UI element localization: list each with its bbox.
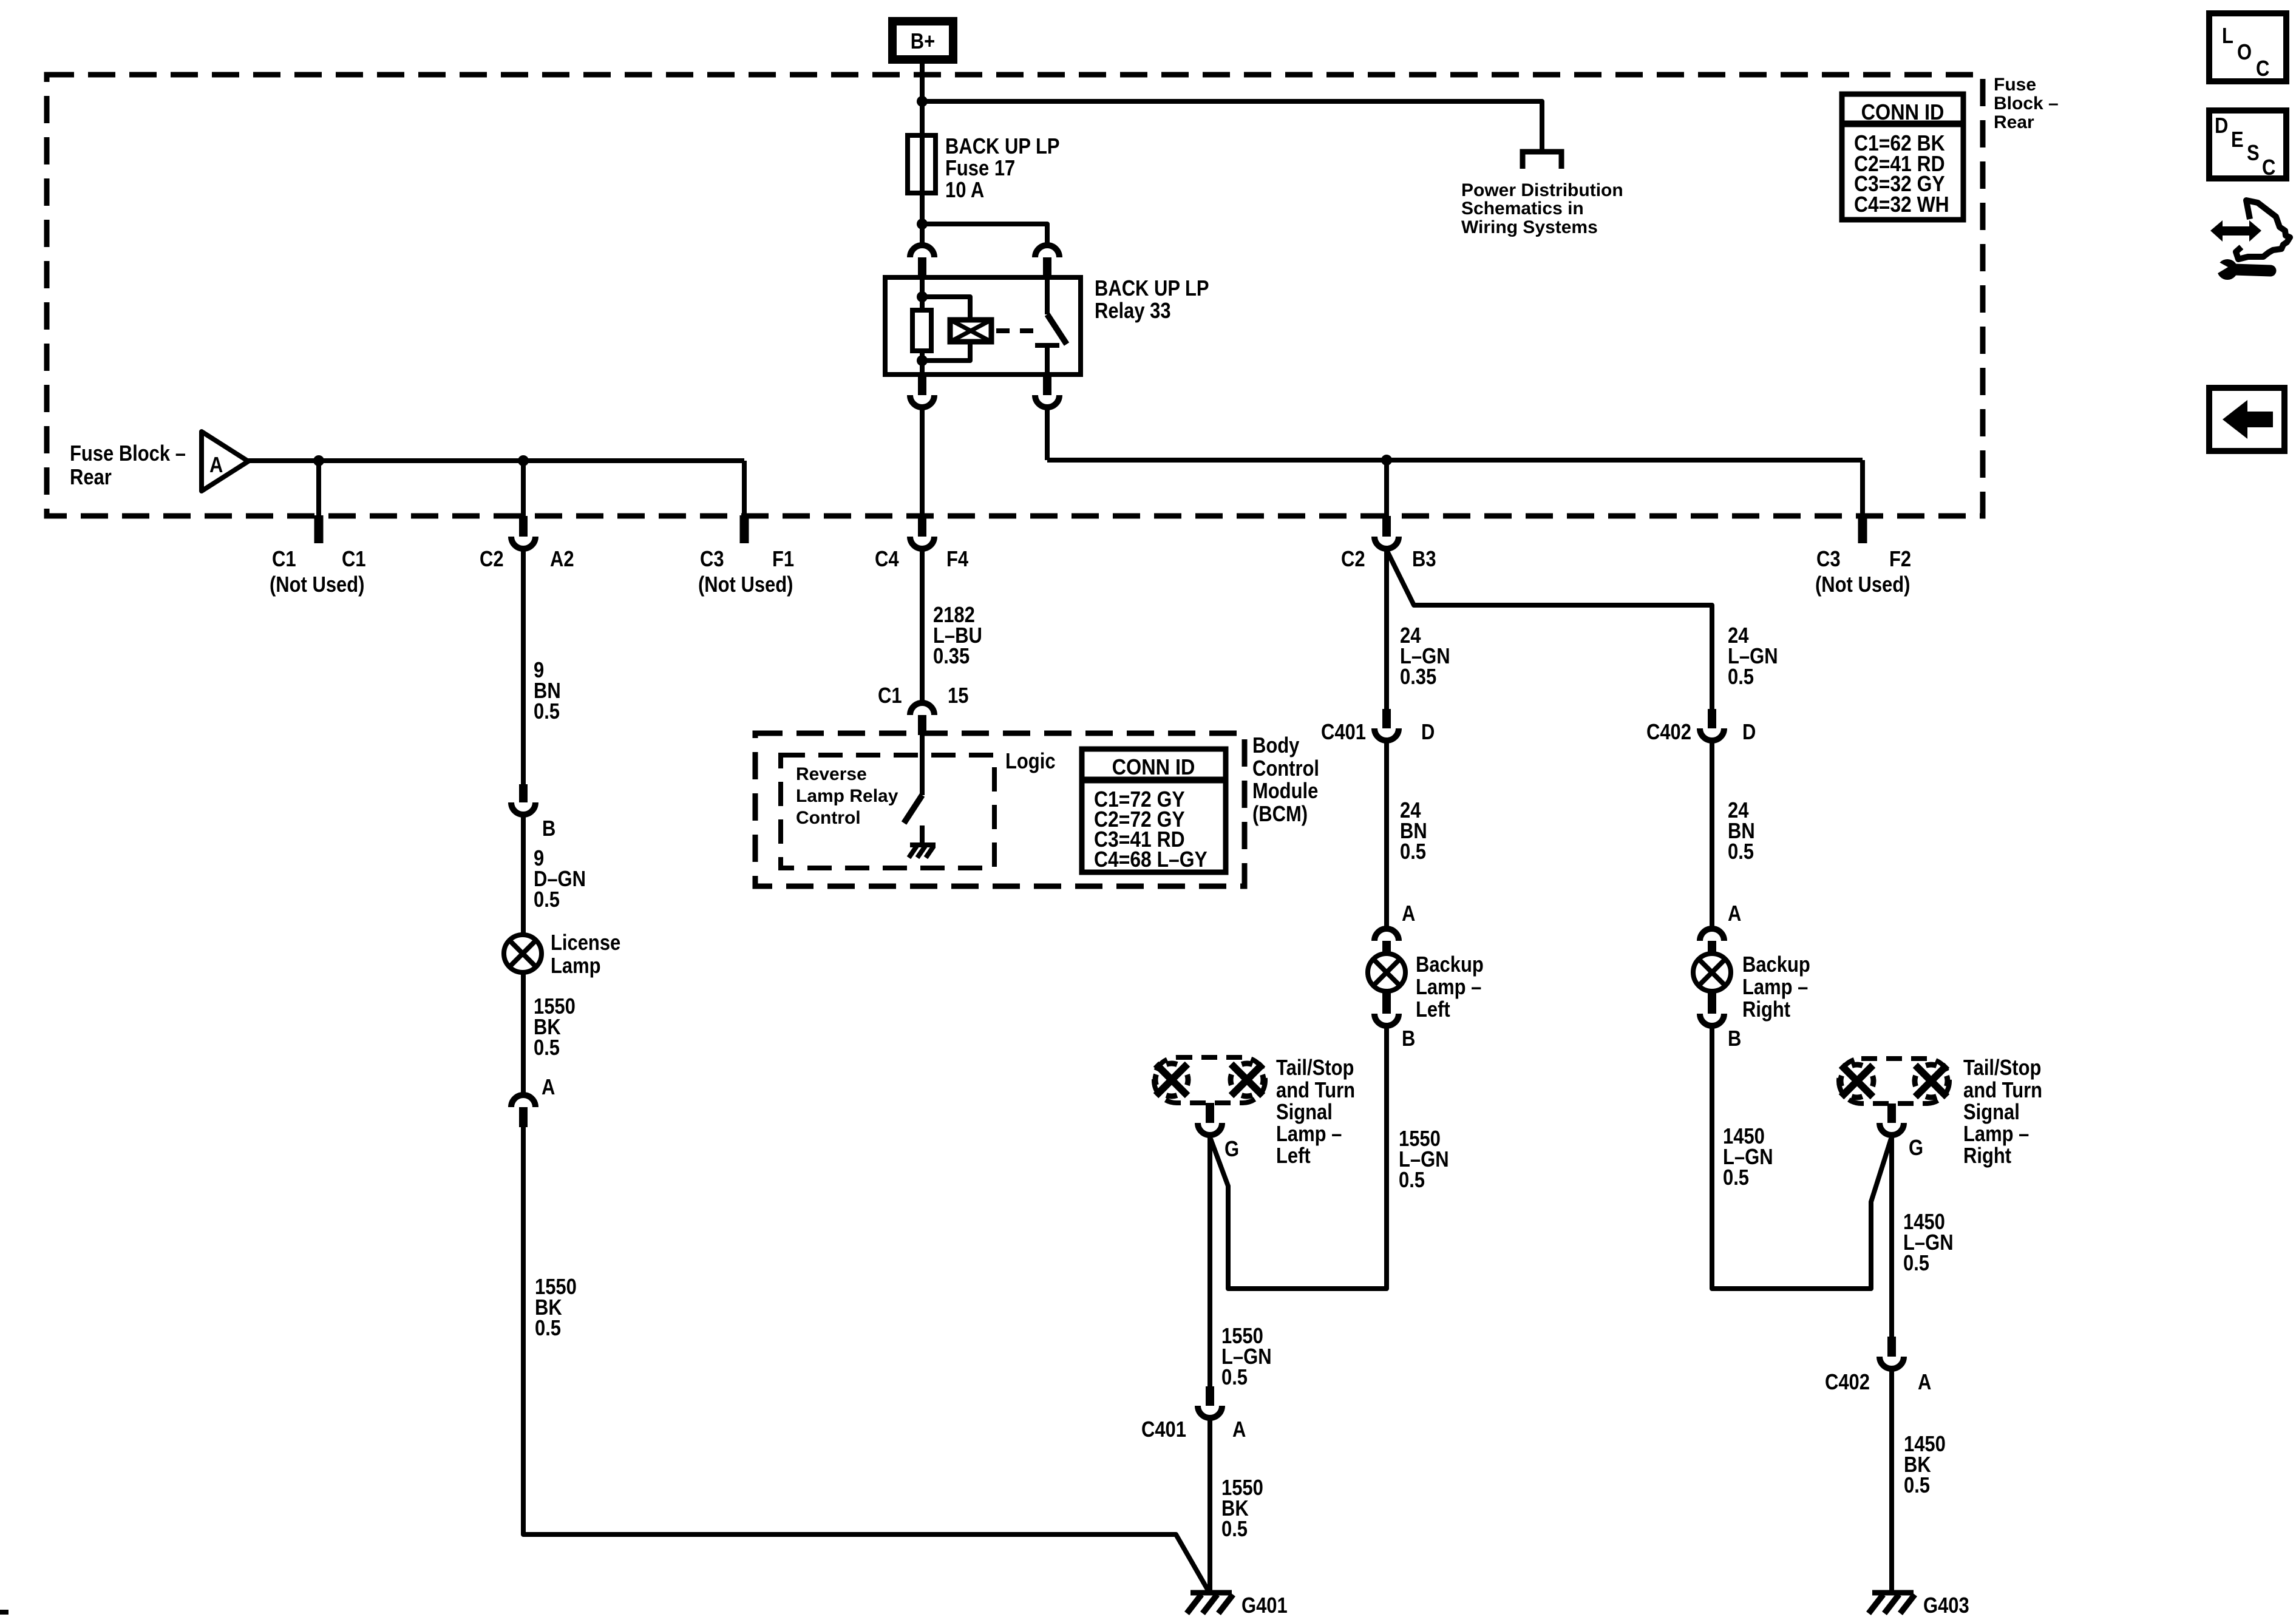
pin C1 C1 (not used) (314, 515, 324, 543)
wire C2 A2 to license lamp (521, 551, 526, 784)
wire drop to C2 B3 pin (1384, 460, 1389, 516)
svg-text:C3: C3 (700, 547, 724, 572)
svg-text:C2: C2 (480, 547, 504, 572)
svg-text:A: A (1918, 1371, 1931, 1395)
svg-text:and Turn: and Turn (1276, 1079, 1355, 1103)
svg-text:D: D (1742, 720, 1756, 745)
svg-text:O: O (2237, 41, 2252, 65)
wire license lamp A to ground G401 (523, 1127, 1209, 1592)
svg-text:Wiring Systems: Wiring Systems (1461, 217, 1598, 237)
wire 9 D-GN 0.5 label (534, 847, 586, 912)
BCM driver switch (904, 735, 922, 844)
backup lamp left label (1416, 953, 1484, 1022)
wire backup lamp right B to tail lamp right G (1712, 1028, 1891, 1289)
svg-text:(Not Used): (Not Used) (1815, 573, 1910, 597)
wire 1450 BK 0.5 label (1904, 1432, 1946, 1498)
svg-text:Backup: Backup (1416, 953, 1484, 977)
wire to relay coil (922, 297, 970, 320)
power distribution note (1461, 180, 1623, 237)
svg-text:Rear: Rear (70, 466, 112, 490)
grommet A triangle (202, 432, 248, 491)
backup lamp left pin A (1374, 902, 1415, 955)
svg-text:Fuse 17: Fuse 17 (945, 157, 1015, 181)
wire C402 A to ground (1889, 1371, 1894, 1592)
wire license lamp to pin A (521, 972, 526, 1093)
svg-text:Tail/Stop: Tail/Stop (1276, 1056, 1354, 1080)
svg-text:Control: Control (1252, 757, 1319, 781)
svg-text:Module: Module (1252, 779, 1318, 804)
pin labels C4 F4 (875, 547, 968, 572)
pin labels C402 D (1646, 720, 1756, 745)
scan speck (0, 1610, 8, 1615)
svg-text:G: G (1224, 1137, 1239, 1162)
svg-text:Tail/Stop: Tail/Stop (1963, 1056, 2041, 1080)
wire 24 BN 0.5 label (right) (1728, 799, 1755, 864)
wire coil to lower junction (922, 342, 970, 361)
svg-text:D: D (1421, 720, 1435, 745)
BCM name (1252, 734, 1319, 827)
fuse block CONN ID table (1842, 94, 1963, 220)
wire drop to C3 F2 pin (1860, 460, 1865, 515)
wire relay coil to C4 pin (920, 410, 925, 516)
svg-text:Right: Right (1963, 1144, 2011, 1168)
junction (518, 455, 529, 466)
svg-text:Logic: Logic (1005, 750, 1056, 774)
pin labels C2 B3 (1341, 547, 1436, 572)
svg-text:G401: G401 (1241, 1594, 1288, 1617)
svg-text:B: B (542, 817, 555, 841)
junction (917, 96, 928, 107)
svg-text:A: A (1402, 902, 1415, 926)
relay contact output pin connector 87 (1035, 375, 1059, 407)
svg-text:C3: C3 (1816, 547, 1841, 572)
license lamp label (551, 931, 620, 978)
wire backup lamp left B to tail lamp left G (1211, 1028, 1387, 1289)
svg-text:0.5: 0.5 (1904, 1474, 1930, 1498)
svg-text:A: A (542, 1076, 555, 1100)
wire 24 L-GN 0.35 label (1400, 624, 1450, 690)
svg-text:C: C (2262, 156, 2275, 180)
svg-text:Left: Left (1276, 1144, 1311, 1168)
ground G403 (1869, 1593, 1969, 1617)
svg-text:Lamp: Lamp (551, 954, 601, 978)
svg-text:Signal: Signal (1963, 1100, 2020, 1125)
DESC sidebar icon (2209, 110, 2286, 180)
svg-text:Block –: Block – (1994, 93, 2059, 114)
wire to C401 D (1384, 550, 1389, 709)
connector C402 pin D (1700, 709, 1724, 741)
reverse lamp relay control label (796, 764, 898, 828)
wire C402 D to backup lamp right (1710, 743, 1714, 926)
svg-text:0.5: 0.5 (1903, 1252, 1929, 1276)
wire 24 L-GN 0.5 label (1728, 624, 1778, 690)
svg-text:C4: C4 (875, 547, 899, 572)
svg-text:A: A (1728, 902, 1741, 926)
wire branch to relay contact pin (922, 224, 1047, 243)
svg-text:Lamp Relay: Lamp Relay (796, 786, 898, 806)
junction (917, 355, 928, 366)
connector C2 A2 (511, 516, 535, 549)
wire branch to C402 D (1387, 550, 1712, 709)
connector C402 pin A (1880, 1337, 1904, 1369)
battery feed B+ (892, 21, 953, 59)
backup lamp left (1368, 954, 1405, 991)
wire relay contact to feed bus (1045, 410, 1050, 460)
pin C3 F2 (not used) (1858, 515, 1867, 543)
svg-text:and Turn: and Turn (1963, 1079, 2042, 1103)
svg-text:0.35: 0.35 (933, 645, 970, 669)
svg-text:C401: C401 (1321, 720, 1366, 745)
pin labels C401 D (1321, 720, 1435, 745)
relay 33 box (885, 277, 1081, 375)
svg-text:Body: Body (1252, 734, 1300, 758)
svg-text:C: C (2256, 57, 2269, 81)
svg-text:0.5: 0.5 (1399, 1168, 1425, 1193)
bus from grommet A (248, 458, 744, 463)
fuse 17 symbol (908, 135, 936, 193)
svg-text:0.5: 0.5 (1728, 840, 1754, 864)
pin labels C2 A2 (480, 547, 574, 572)
svg-text:0.5: 0.5 (534, 700, 560, 724)
wire 1550 BK 0.5 label (535, 1275, 577, 1341)
connector C2 B3 (1374, 516, 1399, 549)
wire C401 D to backup lamp left (1384, 743, 1389, 926)
relay coil feed wire (920, 277, 925, 310)
tail/stop and turn signal lamp right (1839, 1059, 1949, 1103)
wire drop to C2 A2 pin (521, 461, 526, 516)
junction (313, 455, 324, 466)
svg-text:Reverse: Reverse (796, 764, 867, 784)
connector C1 pin 15 (910, 703, 934, 735)
svg-text:B3: B3 (1412, 547, 1436, 572)
reverse lamp relay control dashed box (781, 755, 994, 868)
svg-text:Lamp –: Lamp – (1276, 1122, 1342, 1147)
svg-text:0.5: 0.5 (1723, 1166, 1749, 1190)
license lamp (504, 935, 542, 972)
svg-text:0.35: 0.35 (1400, 665, 1436, 690)
fuse block rear name (left) (70, 442, 186, 490)
junction below fuse (917, 219, 928, 229)
relay coil pin connector 86 (910, 245, 934, 277)
svg-text:(BCM): (BCM) (1252, 802, 1308, 827)
svg-text:Left: Left (1416, 998, 1450, 1022)
svg-text:0.5: 0.5 (1221, 1517, 1248, 1542)
svg-text:Lamp –: Lamp – (1416, 975, 1481, 1000)
svg-text:Right: Right (1742, 998, 1790, 1022)
junction (1381, 455, 1392, 466)
wire 1550 BK 0.5 label (534, 995, 576, 1060)
wire feeder to power distribution (922, 101, 1542, 151)
wire B+ down to relay coil pin (920, 59, 925, 243)
fuse block rear name (top right) (1994, 75, 2059, 132)
wire 1550 BK 0.5 label (1221, 1476, 1263, 1542)
tail lamp left label (1276, 1056, 1355, 1168)
pin labels C401 A (1141, 1418, 1246, 1442)
svg-text:L: L (2222, 24, 2233, 49)
svg-text:D: D (2215, 114, 2228, 138)
feed bus to lamps (1047, 458, 1863, 463)
svg-text:0.5: 0.5 (534, 888, 560, 912)
license lamp pin B (511, 784, 555, 841)
svg-text:Lamp –: Lamp – (1963, 1122, 2029, 1147)
fuse 17 label (945, 135, 1060, 203)
power distribution connector symbol (1523, 152, 1561, 169)
svg-text:S: S (2247, 141, 2260, 166)
relay coil output pin connector 85 (910, 375, 934, 407)
tail lamp left pin G (1198, 1103, 1239, 1162)
svg-text:C401: C401 (1141, 1418, 1186, 1442)
backup lamp left pin B (1374, 991, 1415, 1051)
wire drop to C1 pin (316, 461, 321, 515)
wire 1550 L-GN 0.5 label (1221, 1324, 1272, 1390)
svg-text:F2: F2 (1889, 547, 1911, 572)
BCM internal ground (909, 845, 936, 858)
svg-text:E: E (2231, 128, 2244, 152)
svg-text:G403: G403 (1923, 1594, 1969, 1617)
svg-text:C1: C1 (272, 547, 296, 572)
svg-text:10 A: 10 A (945, 178, 984, 203)
pin labels C3 F2 (1815, 547, 1911, 597)
pin C3 F1 (not used) (740, 515, 749, 543)
relay contact pin connector 30 (1035, 245, 1059, 277)
wire 1450 L-GN 0.5 label (1903, 1210, 1954, 1276)
connector C401 pin D (1374, 709, 1399, 741)
tail lamp right label (1963, 1056, 2042, 1168)
ground G401 (1187, 1593, 1288, 1617)
connector C401 pin A (1198, 1386, 1222, 1418)
wire drop to C3 F1 pin (742, 461, 747, 515)
svg-text:Schematics in: Schematics in (1461, 198, 1584, 219)
wire tail lamp right G to C402 A (1889, 1137, 1894, 1337)
svg-text:A2: A2 (550, 547, 574, 572)
wire 1550 L-GN 0.5 label (1399, 1127, 1449, 1193)
svg-text:CONN ID: CONN ID (1112, 755, 1195, 779)
tail/stop and turn signal lamp left (1154, 1057, 1265, 1103)
service tool sidebar icon (hand with wrench) (2210, 200, 2290, 280)
backup lamp right label (1742, 953, 1810, 1022)
fuse block rear dashed outline (47, 75, 1983, 516)
back arrow sidebar icon (2209, 388, 2284, 451)
svg-text:BACK UP LP: BACK UP LP (945, 135, 1060, 159)
svg-text:C1: C1 (878, 684, 902, 708)
tail lamp right pin G (1880, 1103, 1923, 1161)
relay actuation dashed link (996, 328, 1041, 333)
pin labels C3 F1 (698, 547, 794, 597)
svg-text:A: A (209, 453, 223, 478)
svg-text:B: B (1402, 1027, 1415, 1051)
svg-text:G: G (1909, 1136, 1923, 1161)
svg-text:Signal: Signal (1276, 1100, 1333, 1125)
relay suppression resistor (912, 310, 931, 351)
svg-text:C402: C402 (1825, 1371, 1870, 1395)
backup lamp right (1693, 954, 1731, 991)
svg-text:Power Distribution: Power Distribution (1461, 180, 1623, 200)
svg-text:C1: C1 (342, 547, 366, 572)
wire C401 A to ground (1207, 1420, 1212, 1592)
backup lamp right pin B (1700, 991, 1741, 1051)
backup lamp right pin A (1700, 902, 1741, 955)
svg-text:Backup: Backup (1742, 953, 1810, 977)
svg-text:A: A (1232, 1418, 1246, 1442)
wire 9 BN 0.5 label (534, 659, 561, 724)
svg-text:0.5: 0.5 (1400, 840, 1426, 864)
wire C4 to BCM (920, 551, 925, 700)
connector C4 F4 (910, 516, 934, 549)
svg-text:(Not Used): (Not Used) (698, 573, 793, 597)
license lamp pin A (511, 1076, 555, 1127)
svg-text:0.5: 0.5 (535, 1317, 561, 1341)
svg-text:B: B (1728, 1027, 1741, 1051)
relay coil (solenoid) (950, 320, 991, 342)
wire 24 BN 0.5 label (left) (1400, 799, 1427, 864)
svg-text:Lamp –: Lamp – (1742, 975, 1808, 1000)
svg-text:C4=68 L–GY: C4=68 L–GY (1094, 847, 1207, 872)
wire B to license lamp (521, 817, 526, 935)
LOC sidebar icon (2209, 13, 2286, 81)
BCM CONN ID table (1082, 749, 1226, 872)
wire 2182 L-BU 0.35 label (933, 603, 982, 669)
body control module dashed box (755, 733, 1245, 886)
wire tail lamp left G to C401 A (1207, 1137, 1212, 1386)
svg-text:0.5: 0.5 (534, 1036, 560, 1060)
svg-text:CONN ID: CONN ID (1861, 100, 1944, 124)
svg-text:0.5: 0.5 (1221, 1366, 1248, 1390)
junction (917, 291, 928, 302)
pin labels C1 15 (878, 684, 968, 708)
relay 33 label (1095, 277, 1209, 324)
pin labels C402 A (1825, 1371, 1931, 1395)
svg-text:License: License (551, 931, 620, 955)
svg-text:(Not Used): (Not Used) (270, 573, 364, 597)
svg-text:B+: B+ (911, 30, 935, 54)
svg-text:Fuse Block –: Fuse Block – (70, 442, 186, 466)
svg-text:Control: Control (796, 808, 861, 828)
svg-text:C4=32 WH: C4=32 WH (1854, 192, 1949, 217)
svg-text:Relay 33: Relay 33 (1095, 299, 1171, 324)
svg-text:C2: C2 (1341, 547, 1365, 572)
relay switch (1035, 277, 1067, 375)
pin labels C1 C1 (270, 547, 366, 597)
svg-text:Fuse: Fuse (1994, 75, 2036, 95)
svg-text:Rear: Rear (1994, 112, 2034, 132)
wire resistor to lower junction (920, 351, 925, 375)
svg-text:0.5: 0.5 (1728, 665, 1754, 690)
wire 1450 L-GN 0.5 label (1723, 1125, 1773, 1190)
svg-text:15: 15 (948, 684, 968, 708)
svg-text:C402: C402 (1646, 720, 1691, 745)
svg-text:F4: F4 (946, 547, 968, 572)
svg-text:F1: F1 (772, 547, 794, 572)
svg-text:BACK UP LP: BACK UP LP (1095, 277, 1209, 301)
